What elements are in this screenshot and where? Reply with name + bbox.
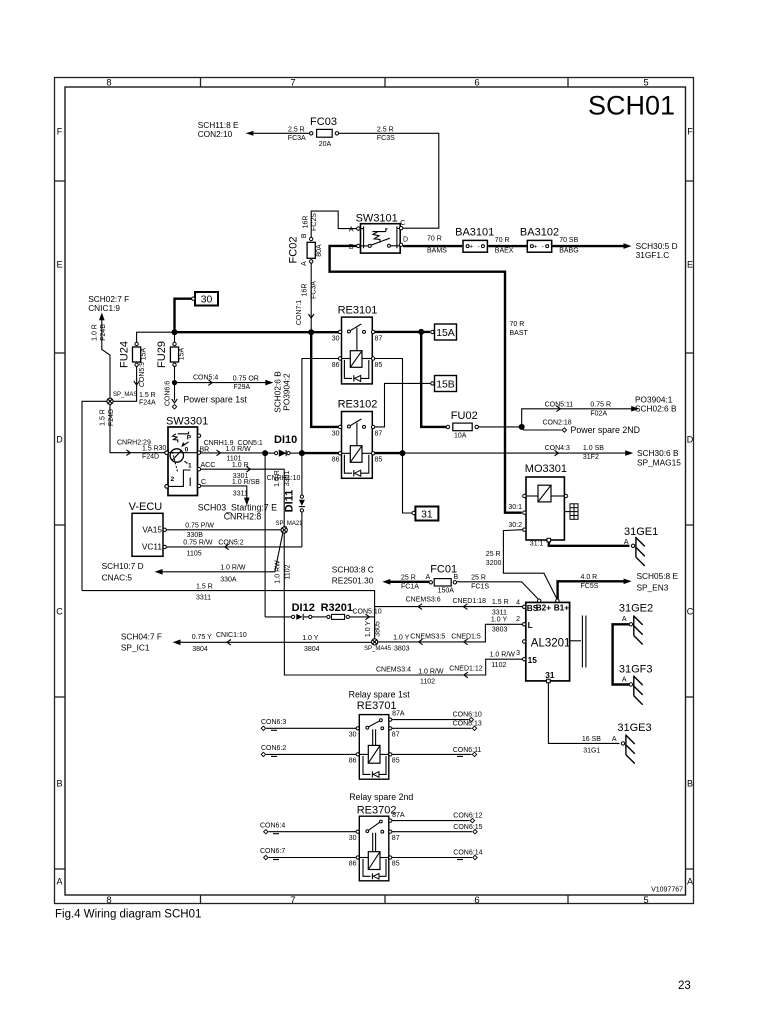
- terminal box 15A: [431, 324, 457, 340]
- svg-text:E: E: [687, 260, 693, 270]
- svg-text:1.0 R/W: 1.0 R/W: [220, 564, 246, 571]
- svg-text:V-ECU: V-ECU: [129, 501, 163, 513]
- relay RE3101: [332, 304, 383, 384]
- svg-text:5: 5: [643, 78, 648, 89]
- svg-text:2: 2: [171, 476, 175, 483]
- svg-text:3311: 3311: [492, 609, 507, 616]
- svg-text:7: 7: [290, 78, 295, 89]
- svg-text:1.5 R: 1.5 R: [196, 583, 213, 590]
- svg-text:B: B: [454, 574, 459, 581]
- svg-text:1: 1: [188, 462, 192, 469]
- wire bus row 30 (bold): [172, 329, 340, 335]
- svg-text:87: 87: [392, 835, 400, 842]
- svg-text:6: 6: [474, 895, 479, 906]
- svg-text:BA3101: BA3101: [455, 226, 494, 238]
- wire CON6:3 to RE3701 30: [261, 719, 356, 731]
- svg-text:0.75 Y: 0.75 Y: [192, 634, 212, 641]
- svg-text:16 SB: 16 SB: [582, 736, 601, 743]
- svg-text:30: 30: [349, 732, 357, 739]
- svg-text:SP_MAG15: SP_MAG15: [637, 457, 681, 467]
- diode DI12: [265, 602, 315, 620]
- svg-text:BR: BR: [200, 446, 210, 453]
- wire 3301 ACC from SW3301 to SP_MA21: [201, 462, 301, 527]
- ECU V-ECU: [129, 501, 167, 557]
- svg-text:6: 6: [474, 78, 479, 89]
- svg-text:31GE2: 31GE2: [619, 603, 653, 615]
- wire RE3102 87 up to 15B: [375, 383, 431, 427]
- diode DI11: [284, 453, 306, 547]
- svg-text:BS: BS: [527, 603, 539, 613]
- svg-text:FC2S: FC2S: [311, 213, 318, 231]
- svg-text:15A: 15A: [179, 347, 186, 360]
- starter motor MO3301: [508, 463, 578, 548]
- svg-text:1.0 Y: 1.0 Y: [365, 621, 372, 638]
- svg-text:CON6:7: CON6:7: [260, 848, 285, 855]
- drawing number V1097767: [651, 887, 683, 894]
- svg-text:1102: 1102: [420, 679, 435, 686]
- svg-text:80A: 80A: [316, 244, 323, 257]
- caption: [55, 909, 201, 921]
- svg-text:CNED1:5: CNED1:5: [451, 633, 481, 640]
- svg-text:Fig.4 Wiring diagram SCH01: Fig.4 Wiring diagram SCH01: [55, 909, 201, 921]
- svg-text:70 SB: 70 SB: [559, 237, 578, 244]
- svg-text:87: 87: [375, 430, 383, 437]
- svg-text:RE3101: RE3101: [338, 304, 378, 316]
- svg-text:SCH02:6 B: SCH02:6 B: [635, 404, 677, 414]
- svg-text:CNIC1:10: CNIC1:10: [216, 632, 247, 639]
- fuse FC02 80A with wire to SW3101 A: [288, 211, 357, 266]
- svg-text:4: 4: [516, 599, 520, 606]
- wire 3804 from SP_MA45 to SP_IC1 arrow: [179, 632, 371, 653]
- svg-text:FC02: FC02: [288, 237, 300, 264]
- svg-text:1.0 RW: 1.0 RW: [275, 560, 282, 584]
- svg-text:DI10: DI10: [274, 434, 297, 446]
- wire 3311 row1 from vertical to AL3201 4/BS: [375, 597, 523, 617]
- relay RE3102: [332, 399, 383, 479]
- svg-text:BAEX: BAEX: [495, 248, 514, 255]
- node SCH30:5 D / 31GF1.C reference: [624, 241, 678, 260]
- svg-text:3804: 3804: [192, 646, 208, 653]
- wire FC3S from FC03 to SW3101 C: [339, 126, 439, 228]
- wire 3311 net from left vertical to SP_MA45 (bold): [82, 583, 375, 638]
- splice SP_MAS: [107, 392, 137, 405]
- svg-text:87A: 87A: [392, 711, 405, 718]
- wire CON2:18 stub Power spare 2ND: [522, 419, 640, 435]
- svg-text:85: 85: [375, 457, 383, 464]
- drawing border frame: [55, 77, 695, 906]
- svg-text:FC1S: FC1S: [471, 584, 489, 591]
- svg-text:E: E: [56, 260, 62, 270]
- svg-text:CNEMS3:4: CNEMS3:4: [376, 667, 411, 674]
- svg-text:P: P: [187, 435, 192, 442]
- svg-text:3311: 3311: [196, 595, 211, 602]
- svg-text:C: C: [400, 220, 405, 227]
- svg-text:A: A: [349, 226, 354, 233]
- wire 1102 from SP_MA21 down to CNEMS3:4 row: [275, 533, 341, 675]
- svg-text:8: 8: [106, 78, 111, 89]
- svg-text:A: A: [56, 877, 62, 887]
- svg-text:1102: 1102: [491, 662, 506, 669]
- svg-text:AL3201: AL3201: [531, 637, 571, 649]
- wire BAEX from BA3101 to BA3102: [488, 237, 526, 255]
- svg-text:16R: 16R: [302, 216, 309, 229]
- svg-text:F29A: F29A: [234, 384, 251, 391]
- wire FC3A from CON2:10 arrow to FC03: [252, 126, 310, 142]
- svg-text:FU02: FU02: [451, 410, 478, 422]
- ground 31GF3: [619, 663, 653, 704]
- wire 330B from VA15 to SP_MA21: [166, 522, 281, 539]
- svg-text:F24A: F24A: [139, 400, 156, 407]
- svg-text:3803: 3803: [492, 627, 508, 634]
- splice SP_MA21: [276, 521, 304, 533]
- svg-text:85: 85: [392, 861, 400, 868]
- wire RE3701 87 to CON6:13: [392, 720, 482, 730]
- svg-text:1102: 1102: [284, 564, 291, 579]
- relay RE3701 (spare): [349, 689, 411, 779]
- svg-text:C: C: [201, 479, 206, 486]
- svg-text:86: 86: [332, 457, 340, 464]
- svg-text:BABG: BABG: [559, 248, 578, 255]
- wire from bus dot down to 31 box: [403, 453, 413, 513]
- svg-text:15B: 15B: [436, 379, 455, 390]
- svg-text:SP_MAS: SP_MAS: [113, 392, 137, 398]
- svg-text:0.75 R/W: 0.75 R/W: [183, 539, 213, 546]
- svg-text:3200: 3200: [486, 560, 502, 567]
- svg-text:SW3301: SW3301: [166, 415, 208, 427]
- svg-text:+: +: [534, 244, 538, 251]
- ground 31GE2: [619, 603, 653, 645]
- svg-text:RE3102: RE3102: [338, 399, 378, 411]
- svg-text:15A: 15A: [436, 328, 455, 339]
- title SCH01: [588, 91, 675, 121]
- svg-text:CON6:11: CON6:11: [453, 747, 482, 754]
- svg-text:V1097767: V1097767: [651, 887, 683, 894]
- svg-text:CON4:3: CON4:3: [545, 445, 570, 452]
- svg-text:A: A: [426, 574, 431, 581]
- svg-text:CON2:18: CON2:18: [543, 419, 572, 426]
- svg-text:10A: 10A: [454, 433, 467, 440]
- wire RE3701 85 to CON6:11: [392, 747, 482, 757]
- svg-text:1.0 R/SB: 1.0 R/SB: [232, 479, 260, 486]
- svg-text:25 R: 25 R: [486, 551, 501, 558]
- svg-text:87: 87: [392, 732, 400, 739]
- svg-text:31GF1.C: 31GF1.C: [636, 250, 670, 260]
- svg-text:A: A: [624, 539, 629, 546]
- wire 3311 C from SW3301 to SCH03_Starting reference: [198, 479, 277, 522]
- svg-text:D: D: [56, 435, 63, 445]
- svg-text:RE2501.30: RE2501.30: [332, 576, 374, 586]
- wire BAMS from SW3101 D to BA3101: [403, 236, 462, 255]
- svg-text:1.0 R/W: 1.0 R/W: [226, 446, 252, 453]
- svg-text:31F2: 31F2: [583, 454, 599, 461]
- svg-text:D: D: [403, 237, 408, 244]
- switch SW3101: [349, 213, 408, 254]
- fuse FC01 150A: [426, 564, 459, 595]
- resistor R3201: [312, 602, 353, 620]
- wire BABG from BA3102 to SCH30:5 arrow: [553, 237, 626, 255]
- wire F02A CON5:11 to PO3904:1 reference: [522, 395, 677, 427]
- svg-text:31GF3: 31GF3: [619, 663, 653, 675]
- svg-text:PO3904:2: PO3904:2: [282, 373, 292, 411]
- wire bus DI10 row (bold segments): [262, 450, 405, 456]
- svg-text:F: F: [57, 127, 63, 137]
- svg-text:C: C: [56, 607, 63, 617]
- svg-text:CNRH2:8: CNRH2:8: [224, 511, 262, 521]
- node SCH04:7 F / SP_IC1 reference: [121, 631, 181, 652]
- wire 3803 from SP_MA45 to AL3201 L: [378, 617, 523, 653]
- svg-text:CNED1:12: CNED1:12: [449, 665, 483, 672]
- svg-text:FU24: FU24: [118, 341, 130, 368]
- svg-text:Relay spare 2nd: Relay spare 2nd: [349, 792, 413, 802]
- svg-text:1.0 R: 1.0 R: [274, 470, 281, 487]
- wire 1105 CON5:2 from VC11 to DI11: [166, 539, 302, 557]
- wire CON5:10 from R3201 to SP_MA45 vertical: [349, 609, 381, 638]
- wire MO3301 31:1 to ground 31GE1 (bold): [549, 542, 630, 546]
- svg-text:330B: 330B: [187, 532, 204, 539]
- fuse FU29 15A: [156, 332, 185, 368]
- svg-text:F02A: F02A: [590, 411, 607, 418]
- svg-text:CON6:13: CON6:13: [453, 720, 482, 727]
- svg-text:7: 7: [290, 895, 295, 906]
- wire F24A from FU24 to SP_MAS: [113, 362, 156, 407]
- svg-text:B: B: [56, 779, 62, 789]
- svg-text:23: 23: [678, 980, 691, 992]
- svg-text:86: 86: [349, 861, 357, 868]
- diode DI10: [265, 434, 299, 456]
- svg-text:Power spare 1st: Power spare 1st: [183, 394, 247, 404]
- svg-text:87A: 87A: [392, 812, 405, 819]
- svg-text:70 R: 70 R: [510, 321, 525, 328]
- svg-text:1.0 R/W: 1.0 R/W: [490, 652, 516, 659]
- svg-text:FC3A: FC3A: [310, 281, 317, 299]
- wire RE3101 85 down to bus dot: [375, 359, 403, 452]
- svg-text:RE3702: RE3702: [357, 804, 397, 816]
- svg-text:SCH05:8 E: SCH05:8 E: [637, 571, 679, 581]
- svg-text:BAMS: BAMS: [427, 248, 447, 255]
- svg-text:CNIC1:9: CNIC1:9: [88, 303, 120, 313]
- svg-text:0.75 R: 0.75 R: [590, 401, 611, 408]
- svg-text:CON5:4: CON5:4: [193, 374, 218, 381]
- wire FC3A lower segment with CON7:1: [296, 263, 317, 330]
- svg-text:31: 31: [545, 670, 555, 680]
- svg-text:SP_IC1: SP_IC1: [121, 643, 150, 653]
- svg-text:C: C: [687, 607, 694, 617]
- node SCH11:8 E / CON2:10 reference: [198, 120, 254, 139]
- svg-text:B: B: [687, 779, 693, 789]
- wire from SW3101 B to starter feed (bold, goes to MO3301 30:1): [330, 246, 529, 513]
- svg-text:2: 2: [516, 616, 520, 623]
- wire from FU02 to junction dot: [478, 424, 524, 430]
- svg-text:Relay spare 1st: Relay spare 1st: [349, 689, 411, 699]
- wire RE3101 86 to DI10 node: [302, 359, 339, 452]
- wire 3200 from MO3301 30:2 to AL3201 B1+: [486, 530, 557, 600]
- svg-text:SW3101: SW3101: [356, 213, 398, 225]
- svg-text:CON6:10: CON6:10: [453, 712, 482, 719]
- svg-text:31GE1: 31GE1: [624, 526, 658, 538]
- terminal box 15B: [431, 376, 457, 392]
- wire CON4:3 31F2 to SCH30:6 reference: [403, 445, 682, 468]
- wire from 15A junction down to FU02 (bold): [421, 332, 446, 427]
- wire RE3702 85 to CON6:14: [392, 850, 483, 860]
- svg-text:F: F: [687, 127, 693, 137]
- svg-text:CON2:10: CON2:10: [198, 129, 233, 139]
- svg-text:VA15: VA15: [142, 524, 162, 534]
- svg-text:3: 3: [516, 650, 520, 657]
- svg-text:RE3701: RE3701: [357, 700, 397, 712]
- svg-text:A: A: [622, 616, 627, 623]
- svg-text:2.5 R: 2.5 R: [377, 126, 394, 133]
- svg-text:1.0 R: 1.0 R: [232, 462, 249, 469]
- svg-text:A: A: [687, 877, 693, 887]
- svg-text:F24B: F24B: [100, 324, 107, 341]
- wire 330A from SP_MA21 to CNAC:5 arrow: [162, 533, 283, 583]
- svg-text:B1+: B1+: [554, 602, 570, 612]
- svg-text:30: 30: [349, 835, 357, 842]
- wire CON6:4 to RE3702 30: [260, 822, 356, 834]
- svg-text:D: D: [687, 435, 694, 445]
- wire from 30 box down to bus: [175, 299, 192, 331]
- svg-text:3804: 3804: [304, 646, 320, 653]
- svg-text:8: 8: [106, 895, 111, 906]
- splice SP_MA45: [364, 639, 392, 652]
- wire bracket joining 31GE2 and 31GF3: [613, 624, 630, 684]
- wire to FU24 top: [137, 332, 173, 343]
- svg-text:CNEMS3:6: CNEMS3:6: [406, 597, 441, 604]
- ground 31GE3: [612, 722, 652, 763]
- svg-text:CNAC:5: CNAC:5: [102, 572, 133, 582]
- svg-text:A: A: [622, 676, 627, 683]
- svg-text:CNED1:18: CNED1:18: [453, 598, 487, 605]
- alternator AL3201: [516, 599, 586, 683]
- ignition switch SW3301: [165, 415, 208, 495]
- svg-text:30:1: 30:1: [508, 504, 522, 511]
- svg-text:CON6:14: CON6:14: [453, 850, 482, 857]
- svg-text:ACC: ACC: [201, 462, 216, 469]
- svg-text:-: -: [478, 243, 480, 250]
- svg-text:F24D: F24D: [108, 409, 115, 426]
- svg-text:3301: 3301: [284, 471, 291, 487]
- svg-text:1.0 R/W: 1.0 R/W: [418, 668, 444, 675]
- svg-text:VC11: VC11: [142, 541, 163, 551]
- wire from bus junction down to RE3102 30 (bold): [311, 332, 339, 427]
- battery isolator BA3102: [520, 226, 559, 252]
- svg-text:0.75 P/W: 0.75 P/W: [185, 522, 214, 529]
- svg-text:FU29: FU29: [156, 341, 168, 368]
- svg-text:85: 85: [375, 362, 383, 369]
- svg-text:A: A: [612, 736, 617, 743]
- svg-text:86: 86: [332, 362, 340, 369]
- svg-text:1105: 1105: [187, 550, 202, 557]
- svg-text:25 R: 25 R: [471, 574, 486, 581]
- wire 31G1 from AL3201 31 to ground 31GE3: [548, 683, 619, 755]
- svg-text:CON6:15: CON6:15: [453, 824, 482, 831]
- svg-text:0.75 OR: 0.75 OR: [233, 376, 259, 383]
- terminal box 30: [192, 292, 218, 306]
- wire 1102 row3 from corner to AL3201 3/15: [284, 652, 522, 686]
- wire RE3701 87A to CON6:10: [392, 712, 482, 722]
- svg-text:1.0 SB: 1.0 SB: [583, 445, 604, 452]
- wire from SP_MAS left and down to 3311 row: [82, 401, 107, 590]
- svg-text:1.0 R: 1.0 R: [91, 324, 98, 341]
- svg-text:1.0 Y: 1.0 Y: [491, 617, 508, 624]
- svg-text:R3201: R3201: [321, 602, 353, 614]
- svg-text:CON6:2: CON6:2: [261, 745, 286, 752]
- wire RE3702 87A to CON6:12: [392, 812, 483, 823]
- svg-text:A: A: [301, 261, 308, 266]
- svg-text:20A: 20A: [319, 141, 332, 148]
- svg-text:+: +: [469, 244, 473, 251]
- wire FC5S from AL3201 B1+ to SCH05:8 reference: [558, 571, 679, 600]
- relay RE3702 (spare): [349, 792, 414, 881]
- wire 1101 from SW3301 BR to DI10 node: [200, 440, 263, 463]
- wire F24D from SP_MAS to SW3301 30: [99, 404, 166, 460]
- svg-text:330A: 330A: [220, 576, 237, 583]
- svg-text:-: -: [542, 243, 544, 250]
- svg-text:1.5 R: 1.5 R: [139, 392, 156, 399]
- svg-text:SCH03:8 C: SCH03:8 C: [332, 565, 374, 575]
- svg-text:CON5:9: CON5:9: [139, 362, 146, 387]
- node SCH10:7 D / CNAC:5 reference: [102, 561, 163, 583]
- ground 31GE1: [624, 526, 658, 566]
- svg-text:FC1A: FC1A: [401, 584, 419, 591]
- terminal box 31: [412, 507, 438, 521]
- svg-text:30: 30: [332, 430, 340, 437]
- svg-text:3311: 3311: [233, 490, 248, 497]
- svg-text:MO3301: MO3301: [525, 463, 567, 475]
- svg-text:3805: 3805: [374, 621, 381, 637]
- svg-text:150A: 150A: [438, 588, 455, 595]
- wire F24B from SP_MAS to CNIC1:9 arrow: [91, 319, 110, 401]
- svg-text:15: 15: [528, 655, 538, 665]
- svg-text:B: B: [301, 233, 308, 238]
- svg-text:31GE3: 31GE3: [617, 722, 651, 734]
- svg-text:1.0 Y: 1.0 Y: [302, 635, 319, 642]
- svg-text:BA3102: BA3102: [520, 226, 559, 238]
- svg-text:SCH10:7 D: SCH10:7 D: [102, 561, 144, 571]
- svg-text:FC3A: FC3A: [288, 135, 306, 142]
- svg-text:16R: 16R: [302, 284, 309, 297]
- svg-text:5: 5: [643, 895, 648, 906]
- svg-text:1.5 R: 1.5 R: [99, 409, 106, 426]
- svg-text:2.5 R: 2.5 R: [288, 126, 305, 133]
- svg-text:CON5:10: CON5:10: [353, 609, 382, 616]
- svg-text:L: L: [528, 620, 533, 630]
- svg-text:CON6:12: CON6:12: [453, 812, 482, 819]
- svg-text:31G1: 31G1: [583, 747, 600, 754]
- svg-text:F24D: F24D: [142, 453, 159, 460]
- svg-text:86: 86: [349, 757, 357, 764]
- svg-text:SP_MA45: SP_MA45: [364, 646, 392, 652]
- wire RE3101 87 to 15A (bold): [375, 329, 430, 335]
- wire CON6:2 to RE3701 86: [261, 745, 356, 757]
- svg-text:CON6:6: CON6:6: [165, 381, 172, 406]
- svg-text:FC5S: FC5S: [581, 583, 599, 590]
- svg-text:1.5 R: 1.5 R: [492, 599, 509, 606]
- svg-text:3803: 3803: [394, 646, 410, 653]
- svg-text:25 R: 25 R: [401, 574, 416, 581]
- fuse FC03 20A: [310, 116, 339, 148]
- svg-text:DI11: DI11: [284, 490, 296, 513]
- svg-text:30: 30: [332, 335, 340, 342]
- svg-text:87: 87: [375, 335, 383, 342]
- svg-text:31:1: 31:1: [530, 540, 544, 547]
- node SCH03:8 C / RE2501.30 reference: [332, 565, 391, 586]
- svg-text:1.0 Y: 1.0 Y: [393, 635, 410, 642]
- svg-text:SP_EN3: SP_EN3: [637, 582, 669, 592]
- battery isolator BA3101: [455, 226, 494, 252]
- svg-text:SP_MA21: SP_MA21: [276, 521, 304, 527]
- svg-text:70 R: 70 R: [427, 236, 442, 243]
